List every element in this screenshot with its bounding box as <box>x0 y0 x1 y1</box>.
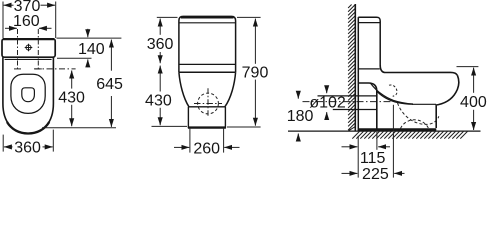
svg-text:400: 400 <box>460 94 487 111</box>
cistern top cap emphasis <box>181 16 234 18</box>
bowl left curve <box>179 72 189 106</box>
dim 360 left-view line <box>4 146 13 148</box>
dim 225 line <box>342 172 358 174</box>
dim 790 line <box>254 19 256 64</box>
cistern lid line <box>358 22 380 24</box>
dim 102 arrows <box>326 86 328 93</box>
extension line top right <box>237 16 261 18</box>
bowl rim line <box>179 71 236 73</box>
floor hatching <box>352 131 467 138</box>
dim 115 line <box>342 146 358 148</box>
extension line top left <box>157 16 178 18</box>
wall hatching <box>348 5 355 132</box>
cistern front outline <box>179 16 236 72</box>
toilet back edge <box>357 17 359 131</box>
extension line seat top right <box>457 66 479 68</box>
cistern bottom line side <box>358 68 380 70</box>
seat top profile <box>380 65 457 76</box>
extension line bottom right <box>227 126 261 128</box>
outlet centre vertical line <box>392 105 394 131</box>
dim 430 front line <box>159 66 161 92</box>
floor line <box>288 130 481 132</box>
seat opening inner ring <box>11 74 45 113</box>
svg-text:260: 260 <box>193 140 220 157</box>
dim 115 extension right <box>376 132 378 150</box>
pedestal foot front view <box>188 107 225 128</box>
outlet pipe bottom line <box>333 109 377 111</box>
hinge tick left <box>14 68 21 70</box>
svg-text:115: 115 <box>360 150 386 167</box>
dim 140 arrows <box>87 29 89 37</box>
hidden foot arc <box>401 120 429 129</box>
dim 370 extension left <box>2 2 4 39</box>
hinge centerline left <box>17 29 19 71</box>
seat back edge line <box>5 58 52 60</box>
outlet pipe centerline <box>303 101 393 103</box>
svg-text:225: 225 <box>362 166 389 180</box>
dim 370 extension right <box>55 2 57 39</box>
hinge tick right <box>35 68 42 70</box>
svg-text:160: 160 <box>13 13 40 30</box>
trap housing outline <box>358 83 377 131</box>
dim 225 extension right <box>392 132 394 178</box>
svg-text:430: 430 <box>58 90 85 107</box>
outlet pipe top line <box>318 95 377 97</box>
hidden drain circle <box>198 93 219 114</box>
foot bottom thick line <box>188 126 226 128</box>
hinge centerline right <box>37 29 39 71</box>
svg-text:790: 790 <box>242 64 269 81</box>
drain circle vertical centerline <box>207 88 209 116</box>
bowl underside curve upper <box>371 83 414 104</box>
svg-text:645: 645 <box>96 76 123 93</box>
center target mark <box>25 44 33 52</box>
dim 260 extension left <box>189 129 191 153</box>
svg-text:360: 360 <box>147 36 174 53</box>
extension line cistern bottom right <box>57 57 92 59</box>
extension line bottom left <box>152 125 188 127</box>
dim 260 line <box>174 146 189 148</box>
bowl outline bottom emphasis <box>7 122 49 134</box>
cistern lid line front view <box>179 22 236 24</box>
svg-text:180: 180 <box>287 108 314 125</box>
dim 400 line <box>473 68 475 93</box>
dim 260 extension right <box>223 129 225 153</box>
bowl underside curve lower <box>377 91 413 104</box>
dim 430 left-view line <box>71 71 73 89</box>
dim 180 arrows <box>297 91 299 99</box>
extension line cistern top right <box>57 37 122 39</box>
bowl right curve <box>225 72 236 106</box>
dim 645 line <box>110 40 112 71</box>
dim 360 front line <box>159 19 161 35</box>
cistern top-view rectangle <box>2 39 55 57</box>
hinge axis centerline <box>34 68 76 70</box>
dim 360 left-view extension right <box>52 130 54 152</box>
svg-text:ø102: ø102 <box>309 95 346 112</box>
extension line bowl front <box>42 127 116 129</box>
dim 115 extension left <box>357 136 359 178</box>
cistern back edge emphasis <box>3 38 54 40</box>
dim 360 left-view extension left <box>2 135 4 152</box>
hidden trap curve <box>398 103 439 124</box>
cistern bottom line <box>179 63 236 65</box>
wall line <box>354 4 356 131</box>
hidden trap curl <box>389 85 397 96</box>
bowl front outline <box>436 76 459 128</box>
bowl outer outline <box>3 57 54 133</box>
foot bottom thick line side <box>359 128 437 131</box>
cistern side top and front <box>358 17 380 65</box>
drain cup shape <box>22 88 35 102</box>
svg-text:140: 140 <box>78 41 105 58</box>
bowl channel bottom line <box>412 103 436 105</box>
svg-text:360: 360 <box>14 140 41 157</box>
drain circle horizontal centerline <box>194 103 222 105</box>
dim 160 line <box>5 27 17 29</box>
svg-text:430: 430 <box>145 92 172 109</box>
dim 370 line <box>4 4 14 6</box>
